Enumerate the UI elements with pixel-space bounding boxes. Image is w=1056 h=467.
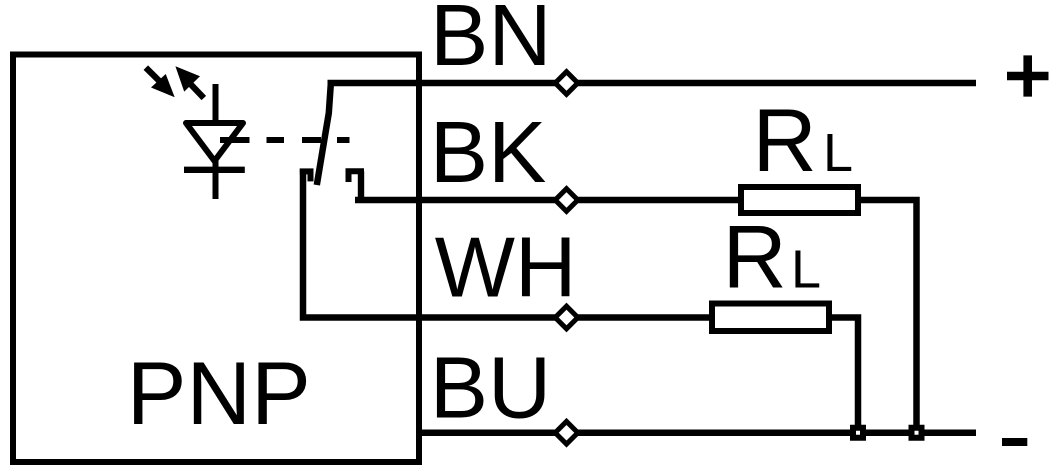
svg-text:BK: BK	[430, 103, 547, 201]
svg-text:R: R	[753, 90, 817, 190]
svg-text:PNP: PNP	[127, 343, 311, 443]
svg-text:R: R	[723, 207, 787, 307]
svg-text:L: L	[823, 123, 853, 183]
svg-text:WH: WH	[435, 221, 577, 316]
svg-text:L: L	[791, 240, 821, 300]
svg-text:BN: BN	[430, 0, 552, 84]
svg-text:BU: BU	[430, 339, 552, 437]
